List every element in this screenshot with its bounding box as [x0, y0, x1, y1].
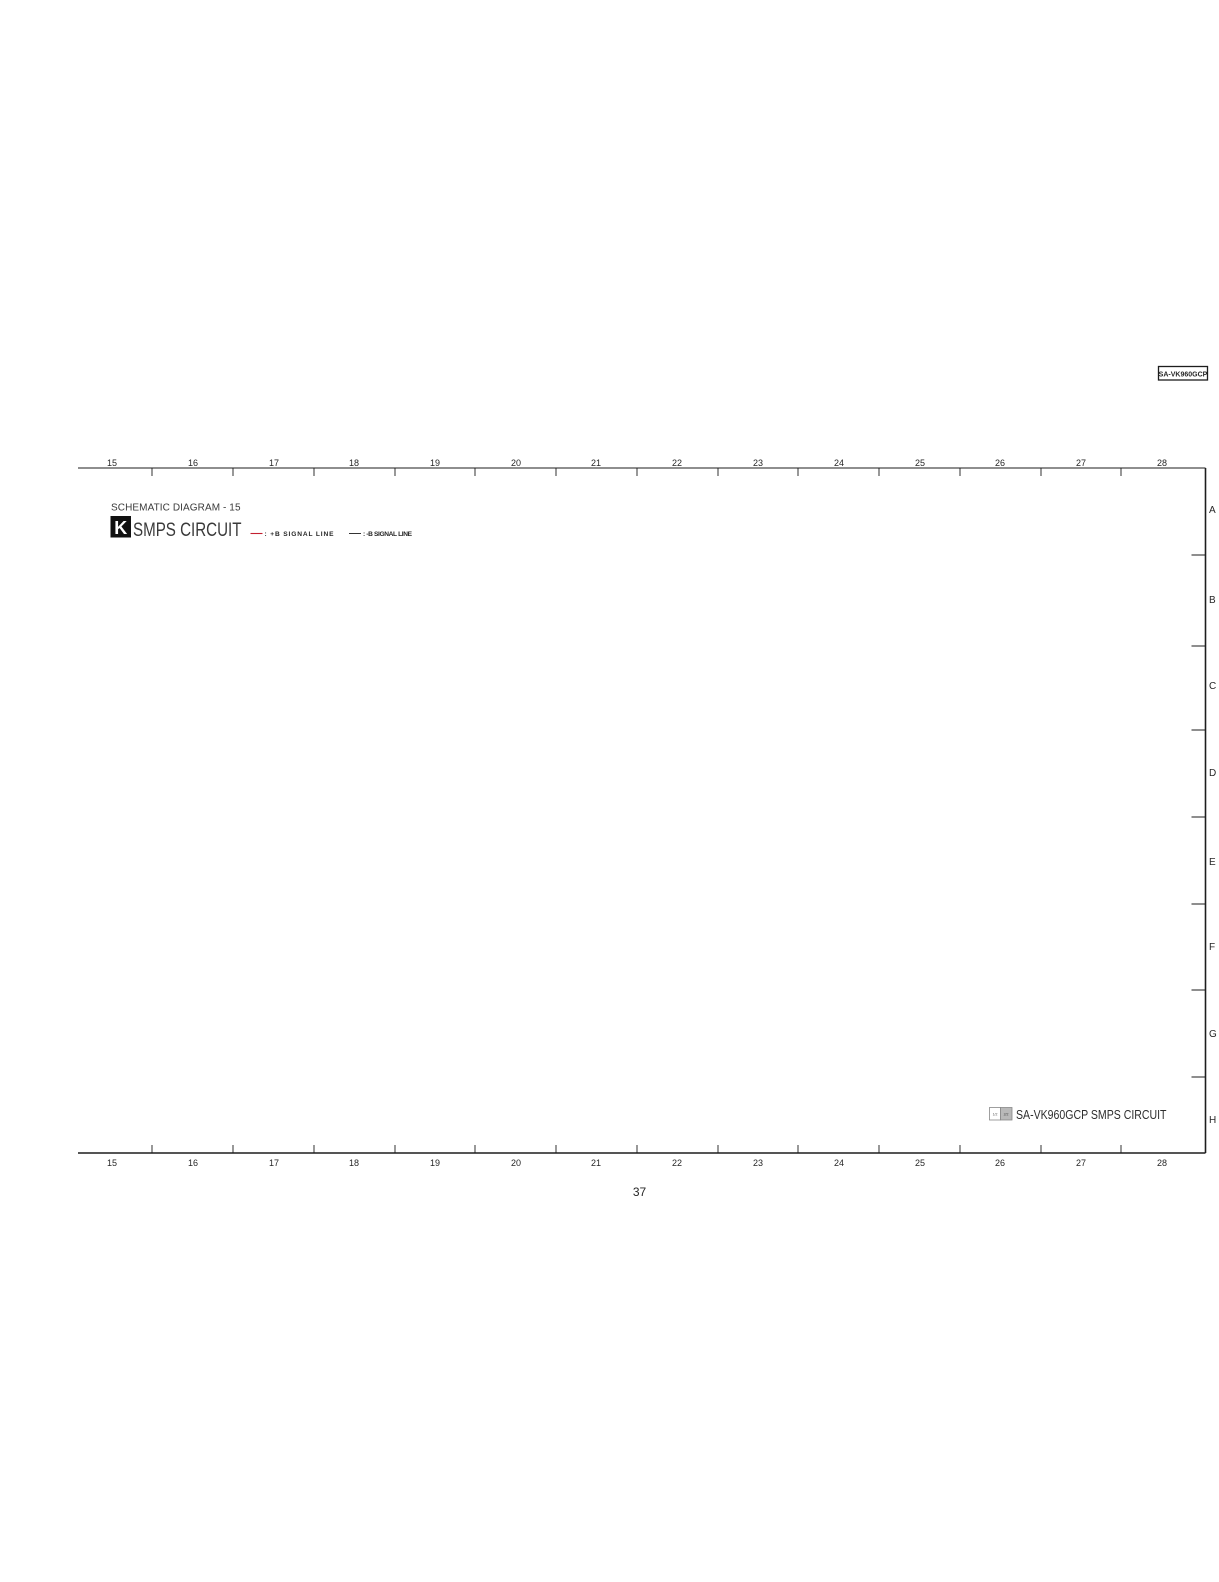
svg-text:23: 23	[753, 1158, 763, 1168]
svg-text:19: 19	[430, 1158, 440, 1168]
svg-text:22: 22	[672, 1158, 682, 1168]
svg-text:19: 19	[430, 458, 440, 468]
svg-text:16: 16	[188, 458, 198, 468]
svg-text:16: 16	[188, 1158, 198, 1168]
svg-text:SA-VK960GCP: SA-VK960GCP	[1159, 372, 1208, 379]
svg-text:F: F	[1209, 942, 1215, 953]
svg-text:25: 25	[915, 1158, 925, 1168]
top ruler line	[78, 467, 1206, 469]
svg-text:E: E	[1209, 857, 1216, 868]
svg-text:28: 28	[1157, 1158, 1167, 1168]
svg-text:G: G	[1209, 1029, 1217, 1040]
svg-text:D: D	[1209, 768, 1216, 779]
ruler numbers top	[107, 458, 1167, 468]
svg-text:24: 24	[834, 458, 844, 468]
ruler ticks bottom	[152, 1145, 1121, 1153]
svg-text:37: 37	[633, 1185, 647, 1199]
svg-text:: +B SIGNAL LINE: : +B SIGNAL LINE	[265, 531, 335, 538]
legend	[251, 533, 263, 535]
svg-text:23: 23	[753, 458, 763, 468]
svg-text:C: C	[1209, 681, 1216, 692]
svg-text:: -B SIGNAL LINE: : -B SIGNAL LINE	[363, 531, 413, 538]
svg-text:20: 20	[511, 458, 521, 468]
svg-text:2/2: 2/2	[1004, 1113, 1009, 1117]
svg-text:24: 24	[834, 1158, 844, 1168]
svg-text:1/2: 1/2	[993, 1113, 998, 1117]
model label box top right	[1159, 367, 1208, 381]
svg-text:B: B	[1209, 595, 1216, 606]
svg-text:17: 17	[269, 458, 279, 468]
svg-text:20: 20	[511, 1158, 521, 1168]
svg-text:15: 15	[107, 1158, 117, 1168]
svg-text:27: 27	[1076, 458, 1086, 468]
svg-text:H: H	[1209, 1115, 1216, 1126]
right border	[1205, 468, 1207, 1153]
svg-text:27: 27	[1076, 1158, 1086, 1168]
svg-text:21: 21	[591, 458, 601, 468]
svg-text:SMPS CIRCUIT: SMPS CIRCUIT	[133, 520, 242, 541]
svg-text:22: 22	[672, 458, 682, 468]
svg-text:17: 17	[269, 1158, 279, 1168]
svg-text:18: 18	[349, 458, 359, 468]
svg-text:SCHEMATIC DIAGRAM - 15: SCHEMATIC DIAGRAM - 15	[111, 503, 241, 514]
svg-text:SA-VK960GCP SMPS CIRCUIT: SA-VK960GCP SMPS CIRCUIT	[1016, 1107, 1167, 1122]
ruler ticks top	[152, 468, 1121, 476]
bottom right sheet label	[990, 1108, 1001, 1121]
svg-text:28: 28	[1157, 458, 1167, 468]
svg-text:A: A	[1209, 505, 1216, 516]
zone ticks right	[1192, 555, 1206, 1077]
K block	[111, 516, 132, 538]
svg-text:21: 21	[591, 1158, 601, 1168]
ruler numbers bottom	[107, 1158, 1167, 1168]
svg-text:15: 15	[107, 458, 117, 468]
svg-text:25: 25	[915, 458, 925, 468]
svg-text:26: 26	[995, 1158, 1005, 1168]
svg-text:26: 26	[995, 458, 1005, 468]
bottom ruler line	[78, 1152, 1206, 1154]
zone letters right	[1209, 505, 1217, 1126]
svg-text:18: 18	[349, 1158, 359, 1168]
svg-text:K: K	[114, 518, 127, 538]
